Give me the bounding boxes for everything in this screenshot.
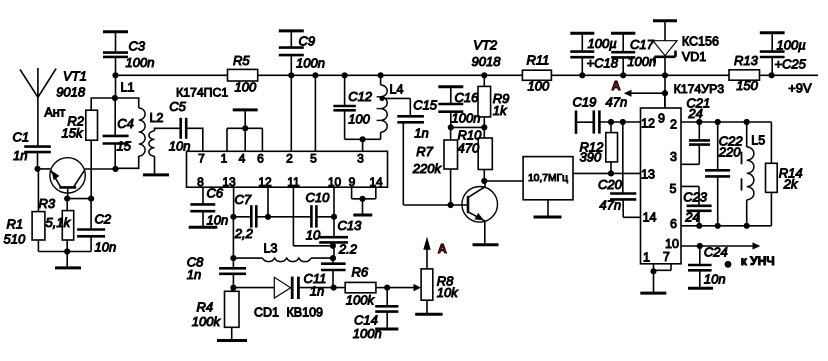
- svg-text:+C18: +C18: [587, 55, 619, 70]
- svg-text:C9: C9: [299, 34, 316, 49]
- svg-text:100n: 100n: [353, 326, 382, 341]
- svg-text:5: 5: [310, 152, 317, 166]
- svg-text:C20: C20: [598, 177, 623, 192]
- svg-text:13: 13: [641, 168, 655, 182]
- svg-text:10: 10: [665, 237, 679, 251]
- svg-text:2.2: 2.2: [338, 241, 358, 256]
- svg-text:24: 24: [687, 106, 702, 121]
- svg-text:100: 100: [528, 79, 550, 94]
- svg-text:L2: L2: [150, 111, 164, 125]
- svg-text:R6: R6: [352, 265, 369, 280]
- svg-text:C23: C23: [683, 189, 708, 204]
- svg-text:3: 3: [357, 152, 364, 166]
- svg-text:C1: C1: [13, 130, 30, 145]
- svg-text:к УНЧ: к УНЧ: [741, 254, 775, 268]
- svg-text:R13: R13: [734, 53, 759, 68]
- svg-text:15: 15: [117, 139, 132, 154]
- svg-text:1n: 1n: [414, 125, 428, 140]
- svg-text:10n: 10n: [169, 138, 191, 153]
- svg-text:К174УР3: К174УР3: [674, 82, 725, 96]
- svg-text:1n: 1n: [310, 283, 324, 298]
- svg-text:2: 2: [670, 117, 677, 131]
- svg-text:10k: 10k: [437, 285, 459, 300]
- svg-text:КС156: КС156: [682, 34, 719, 48]
- svg-text:6: 6: [257, 152, 264, 166]
- svg-text:C10: C10: [306, 190, 331, 205]
- svg-text:R1: R1: [7, 217, 24, 232]
- svg-text:1: 1: [643, 250, 650, 264]
- svg-text:10n: 10n: [207, 212, 229, 227]
- svg-text:47n: 47n: [606, 95, 628, 110]
- svg-text:C5: C5: [169, 99, 186, 114]
- svg-text:C17: C17: [630, 37, 655, 52]
- svg-text:C6: C6: [207, 186, 224, 201]
- svg-text:100: 100: [348, 112, 370, 127]
- svg-text:9018: 9018: [472, 54, 502, 69]
- svg-text:100n: 100n: [452, 111, 481, 126]
- svg-text:C2: C2: [95, 212, 112, 227]
- svg-text:C12: C12: [348, 89, 373, 104]
- svg-text:8: 8: [197, 175, 204, 189]
- svg-text:220k: 220k: [412, 161, 443, 176]
- svg-text:510: 510: [4, 232, 26, 247]
- svg-text:1k: 1k: [493, 103, 508, 118]
- svg-text:L5: L5: [751, 134, 765, 148]
- svg-text:9: 9: [349, 175, 356, 189]
- svg-text:14: 14: [369, 175, 383, 189]
- svg-text:1n: 1n: [187, 267, 201, 282]
- svg-text:10: 10: [306, 228, 321, 243]
- svg-text:100: 100: [235, 80, 257, 95]
- svg-text:А: А: [438, 242, 447, 256]
- svg-text:CD1: CD1: [254, 306, 279, 320]
- svg-text:390: 390: [580, 150, 602, 165]
- svg-text:C24: C24: [704, 245, 728, 260]
- svg-text:10n: 10n: [704, 271, 726, 286]
- svg-text:L1: L1: [121, 81, 135, 95]
- svg-text:R7: R7: [416, 144, 433, 159]
- svg-text:C15: C15: [413, 98, 438, 113]
- svg-text:10,7МГц: 10,7МГц: [528, 173, 568, 184]
- svg-text:10n: 10n: [95, 239, 117, 254]
- svg-text:C19: C19: [573, 95, 597, 110]
- svg-text:2,2: 2,2: [234, 226, 254, 241]
- svg-text:6: 6: [670, 217, 677, 231]
- svg-text:К174ПС1: К174ПС1: [176, 86, 228, 100]
- svg-text:12: 12: [641, 116, 655, 130]
- svg-text:5: 5: [670, 182, 677, 196]
- svg-text:L4: L4: [390, 82, 404, 96]
- svg-text:24: 24: [684, 209, 699, 224]
- svg-text:1n: 1n: [13, 148, 27, 163]
- svg-text:100n: 100n: [296, 55, 325, 70]
- svg-text:2: 2: [286, 152, 293, 166]
- svg-text:+C25: +C25: [774, 57, 806, 72]
- svg-text:15k: 15k: [62, 126, 84, 141]
- svg-text:470: 470: [458, 141, 480, 156]
- svg-text:7: 7: [663, 250, 670, 264]
- svg-text:12: 12: [258, 175, 272, 189]
- svg-text:А: А: [612, 79, 621, 93]
- svg-text:5,1k: 5,1k: [46, 215, 72, 230]
- svg-text:100µ: 100µ: [588, 36, 617, 51]
- svg-text:VT2: VT2: [473, 38, 498, 53]
- svg-text:9018: 9018: [56, 85, 86, 100]
- svg-text:Ант: Ант: [44, 106, 65, 120]
- svg-text:14: 14: [643, 210, 657, 224]
- svg-text:11: 11: [287, 175, 300, 189]
- svg-text:1: 1: [221, 152, 228, 166]
- svg-text:100n: 100n: [627, 54, 656, 69]
- svg-text:+9V: +9V: [788, 81, 812, 96]
- svg-text:13: 13: [222, 175, 236, 189]
- svg-text:КВ109: КВ109: [287, 306, 324, 320]
- svg-text:4: 4: [239, 152, 246, 166]
- svg-text:VD1: VD1: [682, 50, 706, 64]
- svg-text:100k: 100k: [192, 314, 222, 329]
- svg-text:7: 7: [198, 152, 205, 166]
- svg-text:C7: C7: [235, 192, 252, 207]
- svg-text:VT1: VT1: [63, 69, 87, 84]
- svg-text:100µ: 100µ: [777, 37, 806, 52]
- svg-text:R5: R5: [233, 53, 250, 68]
- svg-text:47n: 47n: [599, 197, 621, 212]
- svg-text:3: 3: [670, 150, 677, 164]
- svg-text:150: 150: [736, 78, 758, 93]
- svg-text:100k: 100k: [346, 293, 376, 308]
- svg-text:10: 10: [328, 175, 342, 189]
- svg-text:C3: C3: [129, 39, 146, 54]
- svg-text:100n: 100n: [126, 55, 155, 70]
- svg-text:9: 9: [658, 111, 665, 125]
- svg-text:L3: L3: [264, 241, 278, 255]
- svg-text:220: 220: [718, 145, 741, 160]
- svg-text:R3: R3: [39, 196, 56, 211]
- svg-text:C4: C4: [117, 116, 134, 131]
- svg-text:2k: 2k: [783, 176, 799, 191]
- svg-text:C16: C16: [455, 90, 480, 105]
- svg-text:R11: R11: [527, 53, 550, 68]
- svg-text:R4: R4: [197, 299, 214, 314]
- svg-text:C13: C13: [338, 218, 363, 233]
